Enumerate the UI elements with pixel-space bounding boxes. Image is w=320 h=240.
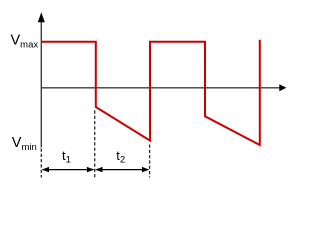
svg-text:t1: t1 bbox=[62, 148, 71, 166]
x-axis bbox=[41, 84, 286, 91]
y-axis bbox=[38, 12, 45, 147]
svg-text:Vmax: Vmax bbox=[11, 33, 39, 51]
t2 interval arrow bbox=[95, 167, 149, 172]
dashed marker at end of t1 bbox=[94, 111, 96, 178]
svg-text:t2: t2 bbox=[116, 148, 125, 166]
t1 interval arrow bbox=[42, 167, 95, 172]
dashed marker at end of t2 bbox=[149, 145, 151, 178]
dashed marker at t=0 bbox=[40, 149, 42, 178]
waveform trace bbox=[41, 40, 259, 145]
svg-text:Vmin: Vmin bbox=[12, 135, 37, 153]
